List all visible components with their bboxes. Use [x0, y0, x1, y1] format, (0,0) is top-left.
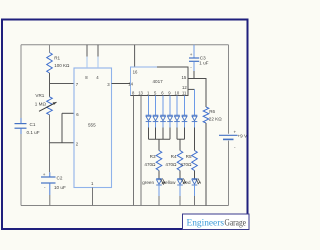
svg-text:green: green: [142, 180, 154, 185]
resistor R5: [192, 151, 198, 171]
svg-text:+: +: [43, 172, 46, 177]
IC 4017 box blue left portion: [131, 67, 158, 96]
svg-text:100 KΩ: 100 KΩ: [54, 63, 70, 68]
wire: C3 top lead from rail: [193, 45, 195, 58]
svg-text:C2: C2: [57, 175, 63, 180]
svg-text:10 uF: 10 uF: [54, 185, 66, 190]
wire: pin 2 wire: [50, 142, 75, 144]
diode D4: [167, 115, 173, 121]
svg-text:16: 16: [133, 69, 138, 74]
svg-text:Engineers: Engineers: [187, 219, 225, 229]
wire: 555 pin 1 to ground: [92, 188, 94, 206]
wire: below D4: [169, 122, 171, 128]
svg-text:11: 11: [182, 90, 187, 95]
wire: left outer loop lower: [20, 134, 22, 206]
svg-text:12: 12: [182, 85, 187, 90]
svg-text:470Ω: 470Ω: [165, 162, 177, 167]
svg-text:VR1: VR1: [35, 93, 44, 98]
wire: C2 bottom lead: [49, 183, 51, 195]
wire: comb tap to R3: [158, 139, 160, 150]
battery BT1 positive plate: [219, 134, 238, 136]
svg-text:470Ω: 470Ω: [144, 162, 156, 167]
wire: top supply rail: [21, 44, 229, 46]
svg-text:R3: R3: [150, 154, 156, 159]
wire: pin 10 column lead: [176, 96, 178, 116]
wire: 555 pin 4 supply: [97, 45, 99, 57]
wire: R1 to VR1 segment: [49, 73, 51, 97]
wire: VR1 bottom to C2 column: [49, 115, 51, 173]
diode D6: [182, 115, 188, 121]
wire: C2 top lead: [49, 172, 51, 177]
wire: C1 top lead: [20, 118, 22, 123]
border frame: [2, 20, 248, 230]
wire: pin 12 column lead: [194, 89, 196, 115]
wire: below D1: [148, 122, 150, 128]
wire: R1 top stub: [49, 45, 51, 53]
resistor R3: [156, 151, 162, 171]
svg-text:R5: R5: [186, 154, 192, 159]
svg-text:+: +: [190, 52, 193, 57]
wire: pin 1 column lead: [148, 96, 150, 116]
wire: green LED to ground: [158, 185, 160, 196]
diode D2: [153, 115, 159, 121]
svg-text:C1: C1: [30, 122, 36, 127]
wire: below D3: [162, 122, 164, 128]
wire: R3 to green LED: [158, 171, 160, 179]
battery BT1 negative plate: [223, 138, 234, 140]
svg-text:470Ω: 470Ω: [180, 162, 192, 167]
wire: battery to ground rail: [228, 141, 230, 206]
svg-text:10: 10: [175, 90, 180, 95]
wire: 4017 pin 16 supply: [134, 45, 136, 67]
LED yellow arrows: [182, 179, 185, 184]
wire: 4017 pin 12 jog: [188, 88, 195, 90]
wire: pin 5 column lead: [155, 96, 157, 116]
svg-text:+9 V: +9 V: [238, 134, 249, 139]
diode D5: [174, 115, 180, 121]
wire: yellow LED to ground: [179, 185, 181, 196]
svg-text:1 uF: 1 uF: [199, 61, 208, 66]
wire: battery top drop: [228, 45, 230, 134]
svg-text:+: +: [234, 130, 237, 135]
VR1 wiper arrow: [39, 102, 57, 111]
logo box EngineersGarage: [183, 214, 250, 230]
wire: left outer loop upper: [20, 45, 22, 118]
resistor R4: [177, 151, 183, 171]
wire: red LED to ground: [194, 185, 196, 196]
wire: C2 to ground rail: [49, 195, 51, 206]
wire: pin 7 wire: [50, 83, 75, 85]
capacitor C2: [41, 177, 56, 183]
svg-text:R4: R4: [171, 154, 177, 159]
wire: below D2: [155, 122, 157, 128]
resistor R1: [47, 53, 53, 74]
wire: C1 bottom lead: [20, 128, 22, 134]
wire: pin 6 column lead: [162, 96, 164, 116]
wire: bottom ground rail: [21, 205, 229, 207]
wire: R6 to ground rail: [205, 123, 207, 206]
wire: R5 to red LED: [194, 171, 196, 179]
LED red arrows: [196, 179, 199, 184]
LED green: [156, 179, 162, 185]
svg-text:14: 14: [128, 82, 133, 87]
wire: R4 to yellow LED: [179, 171, 181, 179]
wire: comb tap to R4: [179, 139, 181, 150]
svg-text:4017: 4017: [153, 79, 164, 84]
wire: comb joining pins 1 5 6 9: [149, 138, 171, 140]
op-amp U1 555 timer box: [74, 68, 112, 188]
svg-text:red: red: [184, 180, 191, 185]
wire: pin 8 column to ground: [133, 96, 135, 206]
wire: comb joining pins 10 11: [177, 138, 185, 140]
wire: below D7 to R5: [194, 122, 196, 128]
svg-text:1 MΩ: 1 MΩ: [35, 102, 47, 107]
svg-text:R6: R6: [209, 109, 215, 114]
svg-text:Garage: Garage: [225, 219, 247, 229]
capacitor C3: [189, 58, 199, 61]
svg-text:555: 555: [88, 122, 96, 127]
wire: C3 bottom lead: [193, 62, 195, 72]
svg-text:0.1 uF: 0.1 uF: [27, 130, 40, 135]
resistor R6: [203, 107, 209, 123]
capacitor C1: [15, 124, 27, 129]
svg-text:15: 15: [182, 75, 187, 80]
LED red: [192, 179, 198, 185]
diode D1: [146, 115, 152, 121]
wire: pin 13 column to ground: [140, 96, 142, 206]
wire: 555 pin 3 to 4017 pin 14: [112, 83, 131, 85]
wire: 4017 pin 15 to R6: [188, 79, 206, 108]
potentiometer VR1: [47, 97, 53, 115]
LED yellow: [177, 179, 183, 185]
wire: 555 pin 8 supply: [86, 45, 88, 57]
svg-text:22 KΩ: 22 KΩ: [209, 117, 222, 122]
diode D3: [160, 115, 166, 121]
IC U2 4017 box: [131, 67, 189, 96]
wire: pin 6 elbow horizontal: [62, 112, 74, 114]
wire: below D6: [184, 122, 186, 128]
diode D7: [192, 115, 198, 121]
LED green arrows: [161, 179, 164, 184]
svg-text:yellow: yellow: [163, 180, 176, 185]
svg-text:13: 13: [138, 90, 143, 95]
wire: below D5: [176, 122, 178, 128]
wire: pin 11 column lead: [184, 96, 186, 116]
svg-text:R1: R1: [54, 56, 60, 61]
wire: pin 9 column lead: [169, 96, 171, 116]
wire: pin 6 to pin 2 elbow vertical: [61, 113, 63, 143]
